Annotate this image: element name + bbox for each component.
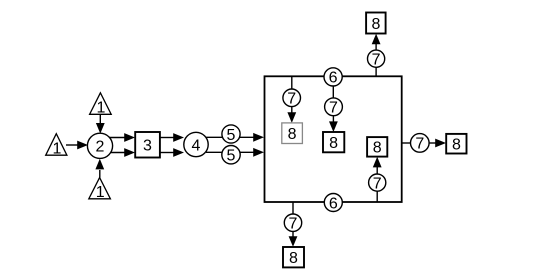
wire boundary bottom edge to node 7-bottom	[292, 202, 294, 215]
node 7 bottom	[284, 214, 301, 233]
svg-text:7: 7	[373, 175, 382, 192]
svg-text:8: 8	[371, 16, 380, 33]
wire node 2 to block 3 upper	[108, 133, 135, 142]
node 7 right	[411, 134, 430, 153]
wire node 2 to block 3 lower	[108, 148, 135, 157]
wire boundary top edge to node 7-top	[375, 66, 377, 77]
sink 8 top	[366, 13, 386, 34]
svg-text:7: 7	[287, 91, 296, 108]
wire node 7c to boundary bottom edge	[376, 190, 378, 202]
svg-text:8: 8	[329, 135, 338, 152]
svg-text:8: 8	[288, 126, 297, 143]
wire block 3 to node 4 lower	[160, 148, 184, 157]
node 7b	[325, 98, 343, 117]
node 2	[87, 133, 112, 158]
wire node 7a to sink 8a	[287, 105, 296, 123]
wire node 7b to sink 8b	[329, 114, 338, 132]
svg-text:7: 7	[372, 52, 381, 69]
svg-text:1: 1	[53, 141, 62, 158]
svg-text:8: 8	[373, 140, 382, 157]
svg-text:6: 6	[329, 195, 338, 212]
wire boundary top edge to node 7a	[291, 77, 293, 94]
node 6 bottom	[324, 194, 342, 213]
node 6 top	[324, 68, 342, 87]
svg-text:7: 7	[415, 136, 424, 153]
sink 8 bottom	[283, 247, 304, 267]
source triangle 1 top	[90, 93, 112, 117]
node 5a	[222, 125, 240, 144]
node 7c	[369, 174, 386, 192]
svg-text:1: 1	[96, 184, 105, 201]
wire triangle1-bottom to node 2	[95, 159, 104, 179]
sink 8 right	[446, 134, 466, 154]
node 7 top	[368, 50, 385, 68]
source triangle 1 left	[46, 134, 67, 158]
sink 8b	[323, 132, 344, 152]
wire boundary right edge to node 7-right	[402, 142, 412, 144]
sink 8c	[367, 137, 387, 157]
node 7a	[283, 89, 301, 108]
svg-text:8: 8	[289, 250, 298, 267]
sink 8a (gray box)	[282, 123, 303, 144]
node 4	[184, 132, 208, 156]
wire node 6 top to node 7b	[332, 85, 334, 99]
svg-text:5: 5	[227, 127, 236, 144]
block 3	[135, 132, 160, 158]
wire block 3 to node 4 upper	[160, 133, 184, 142]
svg-text:3: 3	[143, 138, 152, 155]
wire node 7c to sink 8c	[373, 157, 382, 175]
wire node 7-right to sink 8-right	[428, 139, 446, 148]
wire node 7-top to sink 8-top	[372, 34, 381, 51]
wire triangle1-left to node 2	[66, 141, 88, 150]
svg-text:6: 6	[329, 70, 338, 87]
node 5b	[222, 146, 240, 165]
wire node 4 to boundary lower through node 5b	[206, 148, 264, 157]
svg-text:2: 2	[96, 139, 105, 156]
svg-text:8: 8	[452, 137, 461, 154]
svg-text:4: 4	[192, 137, 201, 154]
svg-text:5: 5	[227, 148, 236, 165]
wire node 7-bottom to sink 8-bottom	[289, 230, 298, 247]
process boundary rectangle	[265, 76, 402, 202]
wire triangle1-top to node 2	[96, 114, 105, 134]
wire node 4 to boundary upper through node 5a	[206, 133, 264, 142]
source triangle 1 bottom	[89, 178, 111, 202]
svg-text:7: 7	[329, 100, 338, 117]
svg-text:7: 7	[289, 216, 298, 233]
svg-text:1: 1	[97, 100, 106, 117]
